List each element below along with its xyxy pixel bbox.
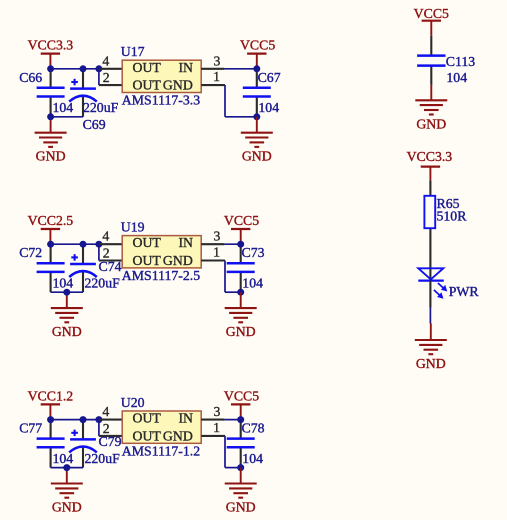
LED arrows (434, 283, 447, 299)
wire pin2 drop (98, 420, 100, 436)
svg-text:GND: GND (242, 149, 272, 164)
pin number 4 (102, 53, 109, 68)
svg-text:GND: GND (52, 500, 82, 515)
svg-text:OUT: OUT (133, 235, 162, 250)
pin 1 stub (201, 84, 225, 86)
junction B (80, 65, 87, 72)
regulator U20 pin names (133, 411, 194, 444)
svg-text:GND: GND (52, 324, 82, 339)
value AMS1117-3.3 (122, 93, 200, 108)
svg-text:OUT: OUT (133, 428, 162, 443)
wire pin1 down (225, 261, 241, 293)
designator U20 (121, 395, 145, 410)
ground right (225, 468, 257, 515)
svg-text:GND: GND (163, 78, 193, 93)
junction B (80, 241, 87, 248)
capacitor C74 pins (82, 244, 84, 292)
ground right (241, 117, 273, 164)
pin number 3 (214, 53, 221, 68)
designator U17 (121, 44, 145, 59)
regulator U20 body (122, 411, 201, 443)
value 510R (437, 209, 468, 224)
power VCC5 (240, 38, 275, 69)
capacitor C79 top plate (70, 438, 96, 441)
pin number 1 (213, 69, 220, 84)
svg-text:C113: C113 (446, 54, 475, 69)
capacitor C69 plus sign (71, 79, 78, 86)
svg-text:104: 104 (242, 276, 263, 291)
junction F (237, 289, 244, 296)
value 104 of C66 (53, 100, 74, 115)
pin number 3 (214, 404, 221, 419)
svg-text:GND: GND (416, 356, 446, 371)
capacitor C79 pins (82, 420, 84, 468)
power VCC1.2 (28, 388, 74, 419)
svg-text:PWR: PWR (449, 284, 480, 299)
pin 2 stub (99, 259, 122, 261)
power VCC5 (224, 213, 259, 244)
capacitor C69 curved plate (69, 96, 97, 102)
designator R65 (437, 196, 460, 211)
svg-text:IN: IN (178, 411, 193, 426)
junction E (237, 416, 244, 423)
capacitor C74 top plate (70, 263, 96, 266)
junction C (95, 241, 102, 248)
svg-text:1: 1 (213, 420, 220, 435)
svg-text:VCC3.3: VCC3.3 (28, 38, 74, 53)
value 220uF of C69 (83, 100, 119, 115)
junction A (47, 65, 54, 72)
label C78 (242, 421, 265, 436)
power VCC3.3 right (407, 149, 453, 180)
pin 2 stub (99, 435, 122, 437)
wire node row (51, 68, 102, 70)
value 220uF of C74 (85, 275, 121, 290)
power VCC3.3 (28, 38, 74, 69)
ground LED (415, 324, 447, 372)
capacitor C72 plates (37, 263, 65, 272)
junction B (80, 416, 87, 423)
svg-text:OUT: OUT (133, 411, 162, 426)
power VCC5 (224, 388, 259, 419)
ground right (225, 292, 257, 339)
LED diode symbol (418, 268, 444, 280)
svg-text:C79: C79 (99, 434, 122, 449)
junction E (237, 241, 244, 248)
svg-text:3: 3 (214, 404, 221, 419)
pin 4 stub (99, 243, 122, 245)
svg-text:104: 104 (53, 100, 74, 115)
capacitor C79 curved plate (69, 447, 97, 453)
wire bottom left (51, 467, 83, 469)
wire bottom left (51, 291, 83, 293)
ground left (35, 117, 67, 164)
capacitor C69 pins (82, 69, 84, 117)
svg-text:104: 104 (53, 276, 74, 291)
svg-text:2: 2 (103, 70, 110, 85)
svg-text:VCC5: VCC5 (240, 38, 275, 53)
value 104 of C72 (53, 276, 74, 291)
svg-text:VCC1.2: VCC1.2 (28, 388, 74, 403)
svg-text:C74: C74 (99, 259, 122, 274)
pin 3 stub (201, 68, 224, 70)
svg-text:104: 104 (242, 451, 263, 466)
svg-text:VCC5: VCC5 (224, 213, 259, 228)
svg-text:GND: GND (163, 253, 193, 268)
pin number 2 (103, 70, 110, 85)
capacitor C66 plates (37, 88, 65, 97)
svg-text:104: 104 (258, 100, 279, 115)
pin 3 stub (201, 419, 224, 421)
capacitor C74 plus sign (71, 254, 78, 261)
capacitor C66 pins (50, 69, 52, 117)
value AMS1117-2.5 (122, 268, 200, 283)
resistor R65 pins (429, 180, 431, 280)
power VCC5 top right (414, 6, 449, 36)
ground left (51, 292, 83, 339)
junction D (63, 464, 70, 471)
svg-text:AMS1117-1.2: AMS1117-1.2 (122, 443, 200, 458)
value AMS1117-1.2 (122, 443, 200, 458)
pin number 3 (214, 229, 221, 244)
label C66 (19, 70, 42, 85)
pin 3 stub (201, 243, 224, 245)
junction D (63, 289, 70, 296)
svg-text:3: 3 (214, 229, 221, 244)
label C113 (446, 54, 475, 69)
junction F (237, 464, 244, 471)
svg-text:GND: GND (163, 428, 193, 443)
pin number 2 (103, 245, 110, 260)
svg-text:OUT: OUT (133, 60, 162, 75)
label C69 (83, 117, 106, 132)
value 104 of C73 (242, 276, 263, 291)
svg-text:220uF: 220uF (85, 451, 121, 466)
wire LED to ground (429, 308, 431, 324)
svg-text:IN: IN (178, 60, 193, 75)
svg-text:AMS1117-3.3: AMS1117-3.3 (122, 93, 200, 108)
label C73 (242, 245, 265, 260)
capacitor C73 pins (240, 244, 242, 292)
junction A (47, 241, 54, 248)
resistor R65 body (424, 196, 435, 228)
wire pin2 drop (98, 69, 100, 85)
capacitor C74 curved plate (69, 271, 97, 277)
wire pin3 to VCC5 (224, 243, 240, 245)
svg-text:VCC3.3: VCC3.3 (407, 149, 453, 164)
svg-text:OUT: OUT (133, 78, 162, 93)
wire pin3 to VCC5 (224, 419, 240, 421)
junction A (47, 416, 54, 423)
svg-text:104: 104 (446, 70, 467, 85)
value 104 of C113 (446, 70, 467, 85)
svg-text:VCC2.5: VCC2.5 (28, 213, 74, 228)
junction F (253, 113, 260, 120)
value 104 of C78 (242, 451, 263, 466)
pin number 2 (103, 421, 110, 436)
ground left (51, 468, 83, 515)
junction E (253, 65, 260, 72)
capacitor C79 plus sign (71, 430, 78, 437)
value 220uF of C79 (85, 451, 121, 466)
svg-text:220uF: 220uF (85, 275, 121, 290)
svg-text:220uF: 220uF (83, 100, 119, 115)
ground top right (415, 85, 447, 131)
wire pin1 down (225, 85, 257, 117)
svg-text:U17: U17 (121, 44, 145, 59)
label C79 (99, 434, 122, 449)
capacitor C73 plates (227, 263, 255, 272)
pin 2 stub (99, 84, 122, 86)
regulator U17 body (122, 60, 201, 92)
regulator U17 pin names (133, 60, 194, 93)
capacitor C67 plates (243, 88, 271, 97)
power VCC2.5 (28, 213, 74, 244)
label C67 (258, 70, 281, 85)
regulator U19 pin names (133, 235, 194, 268)
svg-text:4: 4 (102, 53, 109, 68)
junction C (95, 65, 102, 72)
regulator U19 body (122, 236, 201, 268)
svg-text:U20: U20 (121, 395, 145, 410)
svg-text:VCC5: VCC5 (224, 388, 259, 403)
wire node row (51, 243, 102, 245)
svg-text:AMS1117-2.5: AMS1117-2.5 (122, 268, 200, 283)
svg-text:GND: GND (226, 324, 256, 339)
svg-text:OUT: OUT (133, 253, 162, 268)
pin 4 stub (99, 68, 122, 70)
wire pin2 drop (98, 244, 100, 260)
svg-text:1: 1 (213, 245, 220, 260)
svg-text:VCC5: VCC5 (414, 6, 449, 21)
svg-text:510R: 510R (437, 209, 468, 224)
svg-text:4: 4 (102, 404, 109, 419)
value 104 of C77 (53, 451, 74, 466)
pin 1 stub (201, 435, 225, 437)
label C77 (19, 421, 42, 436)
svg-text:104: 104 (53, 451, 74, 466)
svg-text:GND: GND (416, 116, 446, 131)
svg-text:GND: GND (36, 149, 66, 164)
pin 1 stub (201, 259, 225, 261)
svg-text:C67: C67 (258, 70, 281, 85)
label PWR (449, 284, 480, 299)
wire node row (51, 419, 102, 421)
capacitor C77 pins (50, 420, 52, 468)
pin number 1 (213, 420, 220, 435)
label C72 (19, 245, 42, 260)
designator U19 (121, 219, 145, 234)
svg-text:C72: C72 (19, 245, 42, 260)
capacitor C113 plates (417, 56, 445, 66)
capacitor C72 pins (50, 244, 52, 292)
wire pin1 down (225, 436, 241, 468)
label C74 (99, 259, 122, 274)
capacitor C77 plates (37, 439, 65, 448)
svg-text:C69: C69 (83, 117, 106, 132)
svg-text:4: 4 (102, 229, 109, 244)
svg-text:3: 3 (214, 53, 221, 68)
capacitor C69 top plate (70, 87, 96, 90)
pin number 4 (102, 229, 109, 244)
LED cathode pin (429, 281, 431, 308)
pin 4 stub (99, 419, 122, 421)
svg-text:C73: C73 (242, 245, 265, 260)
wire pin3 to VCC5 (224, 68, 256, 70)
pin number 1 (213, 245, 220, 260)
svg-text:C66: C66 (19, 70, 42, 85)
value 104 of C67 (258, 100, 279, 115)
svg-text:IN: IN (178, 235, 193, 250)
capacitor C78 pins (240, 420, 242, 468)
junction D (47, 113, 54, 120)
svg-text:C78: C78 (242, 421, 265, 436)
svg-text:C77: C77 (19, 421, 42, 436)
pin number 4 (102, 404, 109, 419)
svg-text:1: 1 (213, 69, 220, 84)
capacitor C78 plates (227, 439, 255, 448)
capacitor C113 pins (430, 36, 432, 85)
svg-text:U19: U19 (121, 219, 145, 234)
svg-text:GND: GND (226, 500, 256, 515)
junction C (95, 416, 102, 423)
capacitor C67 pins (256, 69, 258, 117)
wire bottom left (51, 116, 83, 118)
